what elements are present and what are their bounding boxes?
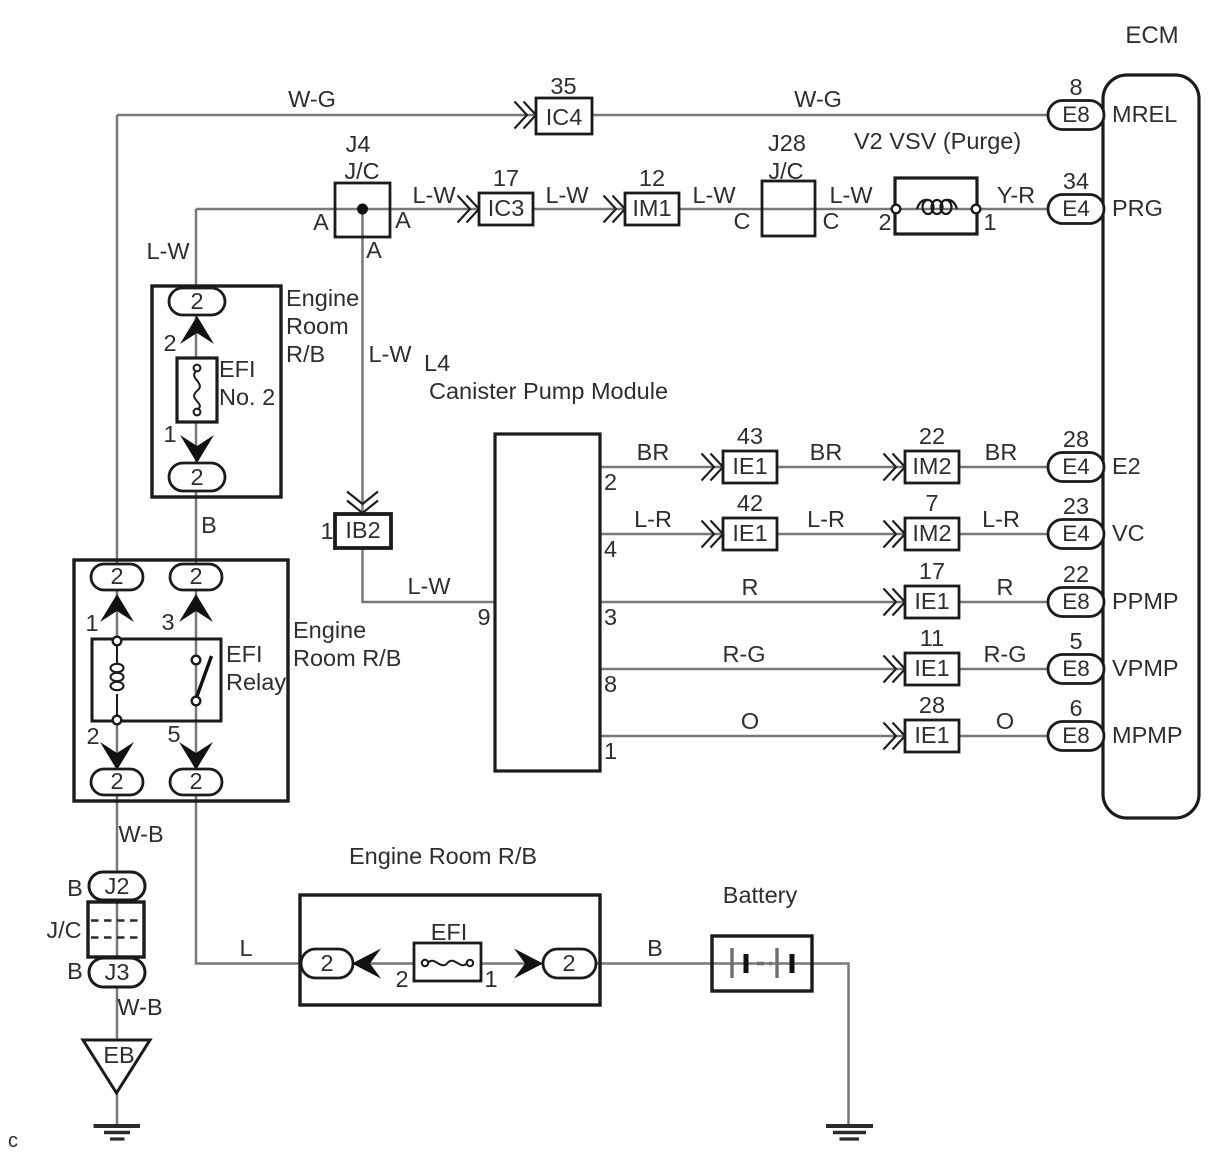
svg-text:3: 3	[604, 604, 617, 630]
svg-text:23: 23	[1063, 493, 1089, 519]
chevron connector before IM1	[604, 196, 626, 223]
Engine Room R/B (bottom) block	[300, 895, 600, 1005]
svg-text:IE1: IE1	[914, 588, 949, 614]
svg-text:L-W: L-W	[829, 182, 873, 208]
svg-text:BR: BR	[637, 439, 670, 465]
svg-text:Engine: Engine	[293, 617, 366, 643]
wire W-G from EFI relay to MREL	[117, 114, 1048, 117]
connector IE1 row 736	[905, 720, 959, 752]
fuse EFI No. 2 body	[177, 358, 217, 422]
svg-text:J28: J28	[768, 130, 806, 156]
chevron before IM2 row 534	[884, 521, 906, 548]
svg-text:c: c	[8, 1130, 18, 1152]
svg-text:2: 2	[163, 330, 176, 356]
VSV terminal 2 circle	[892, 205, 901, 214]
fuse EFI body	[414, 943, 481, 981]
svg-text:IE1: IE1	[914, 655, 949, 681]
svg-text:1: 1	[604, 738, 617, 764]
svg-text:E2: E2	[1112, 453, 1141, 479]
svg-text:EFI: EFI	[219, 356, 256, 382]
svg-text:1: 1	[320, 518, 333, 544]
svg-text:3: 3	[161, 609, 174, 635]
svg-text:IC3: IC3	[488, 195, 525, 221]
svg-text:J3: J3	[105, 959, 130, 985]
chevron before IE1 row 467	[702, 454, 724, 481]
connector E4 pin 28 (E2)	[1048, 453, 1104, 482]
svg-text:L4: L4	[424, 350, 450, 376]
svg-text:2: 2	[189, 563, 202, 589]
male arrow left	[352, 949, 381, 979]
svg-text:V2 VSV (Purge): V2 VSV (Purge)	[854, 128, 1021, 154]
svg-text:1: 1	[163, 421, 176, 447]
svg-text:J/C: J/C	[46, 917, 81, 943]
svg-text:Battery: Battery	[723, 882, 798, 908]
chevron connector above IB2	[347, 492, 378, 514]
L4 Canister Pump Module block	[495, 434, 600, 771]
connector IM2 row 534	[905, 518, 959, 550]
wire L-W / PRG row horizontal	[196, 208, 1048, 211]
svg-text:8: 8	[1069, 74, 1082, 100]
relay coil terminal top	[113, 637, 122, 646]
Engine Room R/B (upper) block	[152, 286, 281, 497]
battery cells	[732, 948, 792, 978]
connector oval 2 bottom-right	[170, 769, 222, 795]
svg-text:B: B	[201, 512, 217, 538]
wire BR pump pin2 to E2	[600, 466, 1048, 469]
svg-text:5: 5	[1069, 628, 1082, 654]
connector IE1 row 602	[905, 586, 959, 618]
svg-text:Canister Pump Module: Canister Pump Module	[429, 378, 668, 404]
svg-text:L-W: L-W	[407, 573, 451, 599]
svg-text:28: 28	[1063, 426, 1089, 452]
connector oval 2 top-left	[91, 564, 143, 590]
wire L branch: J4 down to relay, bottom run to battery and right ground	[196, 209, 849, 1126]
svg-text:BR: BR	[985, 439, 1018, 465]
connector oval 2 top of EFI No.2	[169, 288, 225, 315]
female arrow up pin 3	[179, 594, 213, 622]
svg-text:2: 2	[110, 768, 123, 794]
VSV coil	[917, 200, 957, 214]
svg-text:2: 2	[190, 288, 203, 314]
svg-text:L-R: L-R	[807, 506, 845, 532]
connector E8 pin 22 (PPMP)	[1048, 588, 1104, 617]
svg-text:A: A	[366, 237, 382, 263]
svg-text:Relay: Relay	[226, 669, 286, 695]
connector oval 2 right	[543, 949, 596, 978]
female arrow up pin 1	[100, 594, 134, 622]
svg-text:EFI: EFI	[431, 919, 468, 945]
wire L-R pump pin4 to VC	[600, 533, 1048, 536]
V2 VSV (Purge) body	[895, 178, 977, 234]
connector IE1 row 669	[905, 653, 959, 685]
svg-text:R/B: R/B	[286, 341, 325, 367]
VSV terminal 1 circle	[972, 205, 981, 214]
connector oval 2 top-right	[170, 564, 222, 590]
relay coil terminal bottom	[113, 716, 122, 725]
connector oval 2 left	[301, 949, 353, 978]
svg-text:J4: J4	[346, 131, 371, 157]
junction connector J3	[89, 958, 145, 987]
ground symbol left	[94, 1126, 141, 1139]
connector IB2	[335, 514, 391, 548]
wire O pump pin1 to MPMP	[600, 735, 1048, 738]
fuse EFI No.2 element	[194, 365, 201, 416]
svg-text:B: B	[67, 875, 83, 901]
chevron before IE1 row 669	[884, 656, 906, 683]
svg-text:2: 2	[562, 950, 575, 976]
svg-text:L-W: L-W	[412, 182, 456, 208]
J/C dashed rows	[91, 921, 139, 938]
wire L-W from J4 bottom through IB2 to pump module pin 9	[363, 209, 496, 602]
svg-text:2: 2	[189, 768, 202, 794]
svg-text:ECM: ECM	[1125, 22, 1178, 49]
connector IM2 row 467	[905, 451, 959, 483]
junction block J/C dashed	[88, 902, 144, 957]
wire R-G pump pin8 to VPMP	[600, 668, 1048, 671]
svg-text:L-W: L-W	[545, 182, 589, 208]
connector E4 pin 34 (PRG)	[1048, 195, 1104, 224]
svg-text:E4: E4	[1062, 196, 1090, 221]
svg-text:C: C	[734, 208, 751, 234]
svg-text:EB: EB	[103, 1042, 134, 1068]
svg-text:O: O	[996, 708, 1014, 734]
J4 junction dot	[357, 204, 368, 215]
chevron before IE1 row 736	[884, 723, 906, 750]
svg-text:1: 1	[484, 966, 497, 992]
svg-text:2: 2	[86, 723, 99, 749]
connector IC4	[536, 98, 592, 134]
svg-text:5: 5	[167, 721, 180, 747]
svg-text:E8: E8	[1062, 656, 1090, 681]
svg-text:VC: VC	[1112, 520, 1145, 546]
male arrow down pin 2	[100, 742, 134, 770]
chevron before IE1 row 602	[884, 589, 906, 616]
connector E8 pin 8 (MREL)	[1048, 101, 1104, 130]
connector oval 2 bottom of EFI No.2	[169, 463, 225, 491]
svg-text:2: 2	[190, 464, 203, 490]
wire R pump pin3 to PPMP	[600, 601, 1048, 604]
svg-text:B: B	[67, 958, 83, 984]
svg-text:2: 2	[878, 209, 891, 235]
svg-text:EFI: EFI	[226, 641, 263, 667]
svg-text:43: 43	[737, 423, 763, 449]
svg-text:Engine: Engine	[286, 285, 359, 311]
svg-text:J2: J2	[105, 873, 130, 899]
svg-text:2: 2	[604, 469, 617, 495]
svg-text:35: 35	[550, 73, 576, 99]
svg-text:Y-R: Y-R	[997, 182, 1035, 208]
junction connector J4 (J/C)	[335, 183, 390, 237]
svg-text:W-B: W-B	[117, 994, 162, 1020]
svg-text:R-G: R-G	[983, 641, 1026, 667]
male arrow right	[514, 949, 543, 979]
svg-text:A: A	[395, 207, 411, 233]
svg-text:Room R/B: Room R/B	[293, 645, 401, 671]
svg-text:W-G: W-G	[794, 86, 842, 112]
fuse EFI element	[422, 960, 473, 966]
svg-text:17: 17	[919, 558, 945, 584]
svg-text:2: 2	[110, 563, 123, 589]
svg-text:42: 42	[737, 490, 763, 516]
svg-text:9: 9	[477, 604, 490, 630]
svg-text:L-R: L-R	[634, 506, 672, 532]
svg-text:C: C	[823, 208, 840, 234]
svg-text:IE1: IE1	[914, 722, 949, 748]
connector IC3	[479, 193, 533, 225]
svg-text:R: R	[997, 574, 1014, 600]
male arrow down pin 5	[179, 742, 213, 770]
svg-text:28: 28	[919, 692, 945, 718]
male arrow down pin 1	[180, 435, 214, 463]
svg-text:PPMP: PPMP	[1112, 588, 1179, 614]
svg-text:22: 22	[1063, 561, 1089, 587]
svg-text:1: 1	[85, 610, 98, 636]
svg-text:22: 22	[919, 423, 945, 449]
junction connector J28 (J/C)	[762, 181, 815, 236]
svg-text:J/C: J/C	[344, 158, 379, 184]
svg-text:No. 2: No. 2	[219, 384, 275, 410]
svg-text:Engine Room R/B: Engine Room R/B	[349, 843, 537, 869]
svg-text:2: 2	[395, 966, 408, 992]
Battery body	[712, 936, 812, 991]
svg-text:7: 7	[925, 490, 938, 516]
chevron before IE1 row 534	[702, 521, 724, 548]
svg-text:R-G: R-G	[722, 641, 765, 667]
svg-text:IE1: IE1	[732, 453, 767, 479]
svg-text:4: 4	[604, 536, 617, 562]
svg-text:11: 11	[920, 625, 944, 651]
svg-text:L-W: L-W	[146, 238, 190, 264]
svg-text:8: 8	[604, 671, 617, 697]
EFI relay body	[92, 639, 221, 721]
connector IE1 row 467	[723, 451, 777, 483]
connector E4 pin 23 (VC)	[1048, 520, 1104, 549]
svg-text:34: 34	[1063, 168, 1089, 194]
ground point EB triangle	[83, 1040, 150, 1093]
chevron connector before IC4	[515, 102, 537, 129]
wire W-B left vertical trunk	[116, 115, 119, 1126]
junction connector J2	[89, 872, 145, 900]
svg-text:B: B	[647, 935, 663, 961]
svg-text:L-R: L-R	[982, 506, 1020, 532]
svg-text:6: 6	[1069, 695, 1082, 721]
svg-text:IM1: IM1	[632, 195, 671, 221]
svg-text:E8: E8	[1062, 723, 1090, 748]
svg-text:W-B: W-B	[118, 821, 163, 847]
connector E8 pin 6 (MPMP)	[1048, 722, 1104, 751]
svg-text:MREL: MREL	[1112, 101, 1177, 127]
chevron connector before IC3	[458, 196, 480, 223]
svg-text:IM2: IM2	[912, 453, 951, 479]
relay switch terminal bottom	[192, 697, 201, 706]
ECM block	[1103, 75, 1199, 818]
svg-text:IC4: IC4	[546, 104, 583, 130]
svg-text:E4: E4	[1062, 454, 1090, 479]
connector E8 pin 5 (VPMP)	[1048, 655, 1104, 684]
svg-text:1: 1	[983, 209, 996, 235]
svg-text:E4: E4	[1062, 521, 1090, 546]
svg-text:L-W: L-W	[368, 341, 412, 367]
connector IM1	[625, 193, 679, 225]
svg-text:Room: Room	[286, 313, 349, 339]
svg-text:J/C: J/C	[768, 158, 803, 184]
svg-text:R: R	[742, 574, 759, 600]
relay switch blade	[197, 656, 212, 696]
svg-text:MPMP: MPMP	[1112, 722, 1183, 748]
connector IE1 row 534	[723, 518, 777, 550]
svg-text:E8: E8	[1062, 589, 1090, 614]
svg-text:E8: E8	[1062, 102, 1090, 127]
svg-text:VPMP: VPMP	[1112, 655, 1179, 681]
svg-text:IB2: IB2	[345, 517, 380, 543]
relay switch terminal top	[192, 656, 201, 665]
svg-text:2: 2	[320, 950, 333, 976]
relay coil	[111, 645, 124, 716]
svg-text:L: L	[239, 935, 252, 961]
svg-text:12: 12	[639, 165, 665, 191]
svg-text:PRG: PRG	[1112, 195, 1163, 221]
svg-text:L-W: L-W	[692, 182, 736, 208]
female arrow up pin 2	[180, 316, 214, 344]
svg-text:W-G: W-G	[288, 86, 336, 112]
connector oval 2 bottom-left	[91, 769, 143, 795]
svg-text:O: O	[741, 708, 759, 734]
svg-text:17: 17	[493, 165, 519, 191]
svg-text:IE1: IE1	[732, 520, 767, 546]
svg-text:BR: BR	[810, 439, 843, 465]
svg-text:IM2: IM2	[912, 520, 951, 546]
svg-text:A: A	[313, 209, 329, 235]
Engine Room R/B (lower) block	[74, 560, 288, 801]
ground symbol right	[826, 1126, 873, 1139]
chevron before IM2 row 467	[884, 454, 906, 481]
